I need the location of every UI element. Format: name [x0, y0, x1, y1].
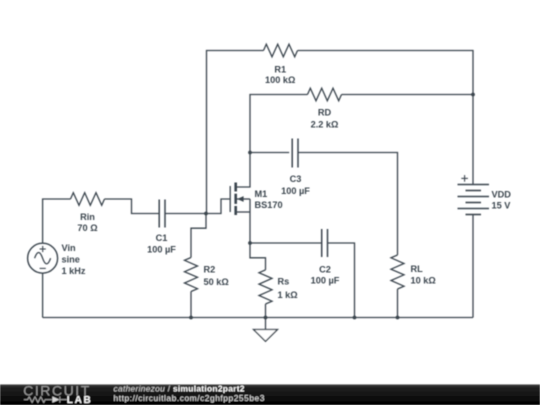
label RD value	[311, 108, 339, 130]
svg-text:50 kΩ: 50 kΩ	[204, 277, 229, 287]
label C1 value	[147, 233, 176, 255]
svg-text:VDD: VDD	[492, 189, 512, 199]
svg-text:1 kHz: 1 kHz	[62, 266, 86, 276]
battery VDD plus sign	[461, 175, 468, 182]
junction node: R2/bottom rail	[189, 316, 193, 320]
svg-text:100 kΩ: 100 kΩ	[265, 75, 295, 85]
wire RD row: drain vertical top to RD	[250, 95, 308, 153]
resistor RD	[308, 88, 342, 101]
battery VDD plates	[458, 185, 490, 215]
capacitor C1	[159, 200, 165, 228]
transistor M1 gate bar	[229, 186, 231, 212]
wire Vin bottom lead to bottom rail	[42, 273, 44, 317]
resistor R2	[185, 258, 198, 292]
label C2 value	[311, 264, 340, 285]
ground symbol lead	[265, 318, 267, 330]
wire gate node to M1 gate	[206, 199, 230, 214]
logo resistor-diode squiggle	[24, 397, 67, 403]
svg-text:Vin: Vin	[62, 243, 77, 253]
wire R1 right to top-right corner and down right rail	[298, 51, 474, 185]
wire Vin top lead up to Rin row	[43, 199, 71, 243]
svg-text:70 Ω: 70 Ω	[77, 223, 97, 233]
svg-text:BS170: BS170	[255, 200, 283, 210]
wire C3 right to RL top	[298, 153, 398, 256]
Vin plus sign	[40, 246, 46, 252]
wire RD right to right rail	[342, 94, 474, 96]
wire C3 branch left	[250, 152, 289, 154]
svg-text:1 kΩ: 1 kΩ	[278, 290, 298, 300]
wire C2 right down to bottom rail	[328, 243, 355, 318]
label C3 value	[281, 174, 310, 196]
wire RL bottom lead	[397, 289, 399, 318]
wire M1 source down to C2 node and jog to Rs	[250, 199, 266, 270]
resistor RL	[391, 255, 404, 289]
junction node: ground/bottom rail	[264, 316, 268, 320]
svg-text:C1: C1	[156, 233, 168, 243]
wire Rin right, step down to C1	[105, 199, 160, 214]
svg-text:15 V: 15 V	[492, 200, 512, 210]
junction node: drain/C3	[248, 151, 252, 155]
svg-text:100 µF: 100 µF	[147, 244, 176, 254]
resistor Rs	[259, 270, 272, 304]
transistor M1 channel bars	[234, 183, 237, 216]
label R2 value	[204, 265, 229, 288]
svg-text:catherinezou / simulation2part: catherinezou / simulation2part2	[114, 383, 245, 393]
capacitor C3	[292, 139, 298, 168]
svg-text:http://circuitlab.com/c2ghfpp2: http://circuitlab.com/c2ghfpp255be3	[114, 393, 265, 403]
voltage source Vin circle	[28, 243, 58, 273]
junction node: C2/bottom rail	[353, 316, 357, 320]
ground symbol triangle	[254, 330, 278, 342]
resistor R1	[264, 44, 298, 57]
svg-text:C3: C3	[290, 174, 302, 184]
label RL value	[411, 264, 436, 286]
wire C2 branch from source node	[250, 242, 322, 244]
label Vin value	[62, 243, 86, 276]
junction node: source/C2	[248, 241, 252, 245]
svg-text:R1: R1	[274, 64, 286, 74]
wire R2 branch from gate node	[191, 214, 206, 258]
junction node: RD/right rail	[471, 93, 475, 97]
wire drain vertical (RD/C3 node down to M1 drain)	[236, 153, 251, 188]
svg-text:RD: RD	[318, 108, 332, 118]
wire top rail left segment (gate node to R1)	[207, 51, 264, 214]
resistor Rin	[71, 193, 105, 206]
svg-text:Rs: Rs	[278, 276, 290, 286]
label M1 BS170	[255, 189, 283, 210]
wire VDD bottom lead down right rail	[472, 215, 474, 318]
svg-text:R2: R2	[204, 265, 216, 275]
junction node: RL/bottom rail	[396, 316, 400, 320]
wire bottom ground rail	[43, 317, 473, 319]
label VDD value	[492, 189, 512, 210]
svg-text:100 µF: 100 µF	[311, 275, 340, 285]
svg-text:Rin: Rin	[80, 212, 95, 222]
svg-text:LAB: LAB	[67, 395, 93, 405]
svg-text:2.2 kΩ: 2.2 kΩ	[311, 120, 339, 130]
transistor M1 body lead	[236, 198, 250, 200]
svg-text:C2: C2	[319, 264, 331, 274]
svg-text:sine: sine	[62, 254, 80, 264]
junction node: gate/C1/R1/R2	[204, 212, 208, 216]
label Rs value	[278, 276, 298, 300]
svg-text:100 µF: 100 µF	[281, 186, 310, 196]
svg-text:10 kΩ: 10 kΩ	[411, 275, 436, 285]
wire R2 bottom lead	[190, 292, 192, 318]
wire C1 right to gate node	[165, 213, 206, 215]
svg-text:M1: M1	[255, 189, 268, 199]
Vin sine wave	[35, 253, 51, 264]
wire Rs bottom lead	[265, 304, 267, 318]
label R1 value	[265, 64, 295, 85]
transistor M1 source lead	[236, 211, 250, 213]
Vin minus sign	[40, 267, 46, 269]
logo diode triangle	[52, 396, 59, 402]
label Rin value	[77, 212, 97, 233]
transistor M1 body arrow head	[237, 196, 243, 202]
capacitor C2	[322, 229, 328, 257]
svg-text:RL: RL	[411, 264, 424, 274]
